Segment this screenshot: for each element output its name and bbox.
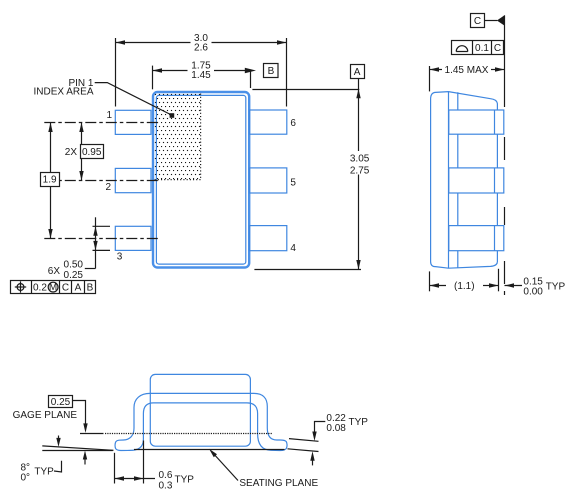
pin 1 index area dotted bottom border (155, 179, 201, 181)
dimension 1.45 MAX extension line (429, 66, 431, 91)
side view: mold parting line A (448, 92, 450, 269)
dimension 0.22/0.08 leader and arrows (315, 422, 326, 434)
svg-text:0.95: 0.95 (82, 147, 102, 158)
dimension 1.45 MAX line (430, 69, 443, 71)
svg-text:1: 1 (107, 110, 113, 121)
svg-text:0°: 0° (21, 473, 31, 484)
side view lead 1 (449, 110, 504, 134)
svg-text:0.3: 0.3 (159, 480, 173, 491)
side view lead 3 (449, 226, 504, 251)
datum A (351, 65, 365, 79)
datum C flag triangle (497, 15, 505, 25)
dimension 3.05/2.75 extension line top (252, 89, 359, 91)
dimension 0.6/0.3 line (115, 478, 156, 480)
svg-text:TYP: TYP (175, 475, 195, 486)
top view: package body inner edge (156, 95, 245, 264)
dimension 1.9 box (41, 173, 60, 187)
lead angle line (tilted) (42, 446, 113, 450)
dimension 0.15/0.00 TYP arrow (505, 285, 523, 287)
centerline pin 2 (44, 180, 160, 182)
gage plane line (solid segment) (80, 433, 104, 435)
datum C leader (485, 20, 498, 22)
svg-text:C: C (62, 283, 69, 294)
centerline pin 1 (44, 122, 160, 124)
dimension 3.0/2.6 extension line left (115, 38, 117, 107)
dimension 1.75/1.45 line (153, 70, 188, 72)
position symbol (17, 284, 24, 291)
dimension 0.95 box (81, 145, 104, 159)
svg-text:2.6: 2.6 (194, 43, 208, 54)
pin 1 index area stipple (154, 93, 200, 179)
side view lead 2 (449, 168, 504, 193)
feature control frame: profile 0.1 C (452, 41, 504, 55)
svg-text:TYP: TYP (349, 417, 369, 428)
side view: body right edge segments (496, 104, 498, 263)
dimension 6X 0.50/0.25 lines (95, 217, 97, 268)
svg-text:SEATING PLANE: SEATING PLANE (239, 478, 318, 489)
svg-text:6: 6 (290, 118, 296, 129)
feature control frame: position 0.2 M C A B (11, 281, 96, 294)
lead thickness extension lines (289, 439, 319, 442)
pin 6 (250, 110, 287, 134)
svg-text:2.75: 2.75 (350, 166, 370, 177)
svg-text:INDEX AREA: INDEX AREA (33, 87, 93, 98)
detail view: lead profile band (115, 393, 287, 450)
dimension 1.75/1.45 extension line left (152, 66, 154, 90)
gage plane line (dotted) (105, 433, 273, 435)
datum C box (471, 14, 485, 28)
svg-text:5: 5 (290, 177, 296, 188)
dimension 3.0/2.6 line (116, 42, 191, 44)
pin 5 (250, 168, 287, 193)
seating plane leader (212, 452, 238, 481)
pin 1 index leader dot (170, 113, 175, 118)
angle leader elbow (54, 461, 62, 472)
side view: body outline (431, 92, 498, 269)
svg-text:0.25: 0.25 (51, 397, 71, 408)
angle dimension arrows (58, 436, 60, 440)
svg-text:C: C (474, 16, 481, 27)
lead angle reference line (horizontal) (42, 450, 113, 452)
dimension 3.0/2.6 extension line right (286, 38, 288, 107)
svg-text:3: 3 (117, 252, 123, 263)
dimension 3.05/2.75 line (358, 79, 360, 152)
pin 3 (115, 226, 151, 250)
svg-text:C: C (494, 43, 501, 54)
detail view: package body (150, 374, 250, 446)
profile of surface symbol (456, 46, 468, 52)
dimension 3.05/2.75 extension line bottom (254, 269, 361, 271)
0.25 gage leader (73, 401, 86, 426)
svg-text:TYP: TYP (34, 466, 54, 477)
dimension 2X 0.95 line (81, 123, 83, 145)
seating plane line (134, 449, 285, 451)
top view: package body outline (153, 92, 249, 268)
svg-text:TYP: TYP (546, 282, 566, 293)
dimension (1.1) extension lines (429, 271, 431, 291)
pin 2 (115, 168, 151, 192)
svg-text:0.08: 0.08 (326, 423, 346, 434)
svg-text:A: A (354, 67, 361, 78)
svg-text:4: 4 (290, 243, 296, 254)
svg-text:2: 2 (106, 182, 112, 193)
pin 1 index leader (95, 83, 171, 115)
side view: mold parting line B (457, 92, 459, 268)
pin 4 (250, 226, 287, 251)
seating plane line (vertical, dashed) (504, 15, 506, 107)
svg-text:M: M (49, 282, 57, 293)
svg-text:1.45: 1.45 (191, 70, 211, 81)
svg-text:A: A (75, 283, 82, 294)
svg-text:1.45 MAX: 1.45 MAX (445, 65, 489, 76)
svg-text:0.6: 0.6 (159, 470, 173, 481)
svg-text:0.00: 0.00 (523, 287, 543, 298)
dimension 1.9 line (50, 123, 52, 173)
svg-text:B: B (87, 283, 94, 294)
svg-text:0.50: 0.50 (64, 260, 84, 271)
svg-text:2X: 2X (65, 147, 78, 158)
pin 1 index area dotted right border (200, 94, 202, 180)
centerline pin 3 (44, 238, 160, 240)
svg-text:6X: 6X (48, 266, 61, 277)
dimension 1.75/1.45 extension line right (250, 71, 252, 89)
dimension 0.25 box (49, 396, 73, 408)
pin 1 (115, 110, 151, 134)
svg-text:B: B (268, 66, 275, 77)
dimension (1.1) line (430, 285, 447, 287)
svg-text:1.9: 1.9 (43, 175, 57, 186)
svg-text:0.25: 0.25 (64, 270, 84, 281)
svg-text:0.1: 0.1 (475, 43, 489, 54)
svg-text:3.05: 3.05 (350, 154, 370, 165)
datum B (264, 64, 279, 78)
svg-text:0.2: 0.2 (33, 283, 47, 294)
svg-text:GAGE PLANE: GAGE PLANE (13, 410, 78, 421)
dimension 0.6/0.3 extension lines (114, 453, 116, 484)
svg-text:(1.1): (1.1) (454, 281, 475, 292)
